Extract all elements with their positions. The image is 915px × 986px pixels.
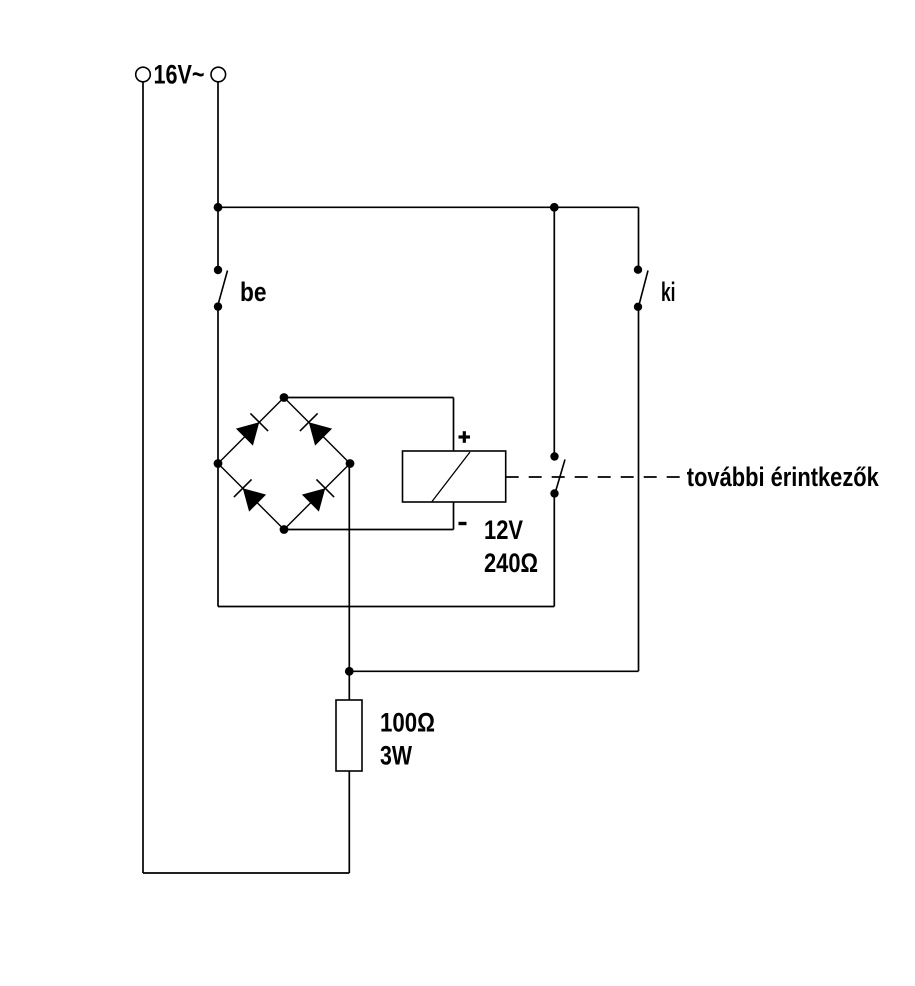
switch be bottom contact dot: [214, 302, 222, 310]
wire contact branch lower: [553, 494, 555, 607]
wire right terminal down to top bus: [217, 82, 219, 208]
relay contact top dot: [550, 452, 558, 460]
switch ki blade: [640, 271, 649, 304]
wire bridge left node down: [217, 464, 219, 607]
switch be blade: [219, 271, 228, 304]
bridge node dot bottom: [280, 525, 289, 534]
svg-text:be: be: [240, 277, 267, 307]
bridge node dot top: [280, 393, 289, 402]
wire resistor bottom stem: [348, 771, 350, 873]
wire contact branch upper: [553, 207, 555, 456]
diode D2 upper-right triangle: [309, 422, 332, 445]
wire ki branch lower: [638, 307, 640, 672]
wire left outer vertical: [142, 82, 144, 873]
resistor R1 body: [336, 700, 362, 771]
node junction dot middle of top bus: [550, 203, 559, 212]
diode D1 upper-left triangle: [236, 422, 259, 445]
wire relay minus vertical: [453, 502, 455, 530]
wire be branch lower to bridge left node: [217, 307, 219, 464]
relay contact blade: [556, 460, 565, 491]
svg-text:100Ω: 100Ω: [380, 708, 435, 738]
bridge edge lower-left: [218, 464, 284, 530]
node resistor junction dot: [345, 667, 354, 676]
diode D4 cathode bar: [316, 479, 334, 497]
diode D2 cathode bar: [300, 413, 318, 431]
bridge node dot left: [214, 459, 223, 468]
wire relay minus horizontal to bridge bottom node: [284, 529, 454, 531]
diode D4 lower-right triangle: [302, 488, 325, 511]
bridge edge upper-left: [218, 398, 284, 464]
switch ki bottom contact dot: [634, 303, 642, 311]
svg-text:3W: 3W: [380, 741, 412, 771]
svg-text:ki: ki: [661, 277, 676, 307]
wire ki branch upper: [638, 207, 640, 269]
wire bridge right node down to junction: [348, 464, 350, 672]
wire bottom horizontal: [143, 872, 349, 874]
wire bridge top node to relay horizontal: [284, 397, 454, 399]
switch ki top contact dot: [634, 266, 642, 274]
switch be top contact dot: [214, 266, 222, 274]
bridge edge upper-right: [284, 398, 350, 464]
wire be branch upper: [217, 207, 219, 270]
wire top bus horizontal: [218, 206, 639, 208]
relay coil diagonal: [432, 452, 470, 502]
label plus horizontal stroke: [459, 435, 471, 438]
diode D1 cathode bar: [250, 413, 268, 431]
dashed link relay to contacts: [506, 476, 685, 478]
label minus stroke: [459, 522, 467, 525]
svg-text:16V~: 16V~: [154, 60, 205, 90]
wire relay plus vertical: [453, 398, 455, 452]
svg-text:12V: 12V: [484, 515, 523, 545]
diode D3 lower-left triangle: [243, 488, 266, 511]
relay contact bottom dot: [550, 489, 558, 497]
diode D3 cathode bar: [234, 479, 252, 497]
wire resistor-junction horizontal: [349, 670, 638, 672]
svg-text:240Ω: 240Ω: [484, 548, 538, 578]
bridge node dot right: [346, 459, 355, 468]
label plus vertical stroke: [463, 431, 466, 443]
terminal circle left: [136, 67, 151, 82]
node junction dot left of top bus: [214, 203, 223, 212]
relay coil K1 rectangle: [403, 451, 506, 502]
terminal circle right: [211, 67, 226, 82]
wire resistor top stem: [348, 671, 350, 700]
svg-text:további érintkezők: további érintkezők: [687, 462, 880, 492]
bridge edge lower-right: [284, 464, 350, 530]
wire lower horizontal be-to-contact: [218, 606, 554, 608]
